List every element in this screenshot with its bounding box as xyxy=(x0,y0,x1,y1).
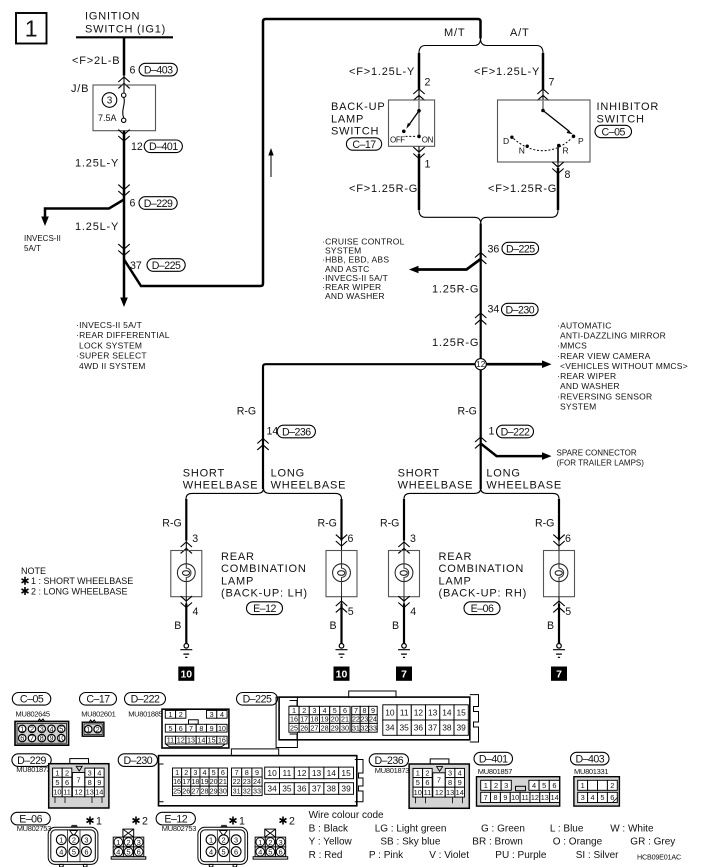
svg-text:MU802645: MU802645 xyxy=(16,710,50,719)
svg-text:<F>1.25L-Y: <F>1.25L-Y xyxy=(474,66,540,78)
svg-text:12: 12 xyxy=(414,707,424,717)
svg-text:11: 11 xyxy=(424,788,432,797)
ground lamp 2 xyxy=(336,644,348,658)
svg-text:3: 3 xyxy=(210,710,214,719)
svg-text:6: 6 xyxy=(565,533,571,545)
connector E-12 short wheelbase xyxy=(220,825,227,827)
svg-text:5: 5 xyxy=(268,848,272,857)
svg-text:(BACK-UP: LH): (BACK-UP: LH) xyxy=(221,588,308,600)
svg-text:4: 4 xyxy=(410,606,416,618)
connector D-236 label xyxy=(369,754,408,767)
svg-text:2 : LONG WHEELBASE: 2 : LONG WHEELBASE xyxy=(31,586,128,596)
svg-text:8: 8 xyxy=(565,169,571,181)
connector E-06 short wheelbase xyxy=(71,825,78,827)
junction block J/B xyxy=(93,85,156,131)
svg-text:28: 28 xyxy=(321,723,329,732)
svg-text:INHIBITOR: INHIBITOR xyxy=(597,101,660,113)
svg-text:<F>1.25R-G: <F>1.25R-G xyxy=(349,183,418,195)
branch arrow to cruise control list xyxy=(417,259,481,270)
svg-text:R-G: R-G xyxy=(237,406,256,418)
svg-text:2: 2 xyxy=(179,710,183,719)
svg-text:C–17: C–17 xyxy=(352,139,376,151)
svg-text:MU802753: MU802753 xyxy=(17,824,51,833)
svg-text:17: 17 xyxy=(300,715,308,724)
svg-text:3: 3 xyxy=(193,768,197,777)
svg-text:3: 3 xyxy=(504,781,508,790)
svg-text:2: 2 xyxy=(222,835,226,844)
svg-text:27: 27 xyxy=(191,786,199,795)
lamp 1 lower wire B to ground xyxy=(181,596,192,607)
branch wire to INVECS-II 5A/T with arrow xyxy=(45,200,124,219)
connector D-230 label xyxy=(118,754,157,767)
svg-text:14: 14 xyxy=(551,793,559,802)
brace split right pair xyxy=(404,488,559,499)
svg-text:14: 14 xyxy=(267,426,279,438)
svg-text:REAR: REAR xyxy=(439,551,473,563)
svg-text:4: 4 xyxy=(193,606,199,618)
svg-text:·REAR VIEW CAMERA: ·REAR VIEW CAMERA xyxy=(557,351,651,361)
svg-text:8: 8 xyxy=(245,768,249,777)
svg-text:19: 19 xyxy=(201,777,209,786)
svg-text:26: 26 xyxy=(300,723,308,732)
svg-text:39: 39 xyxy=(341,784,351,794)
svg-text:·SUPER SELECT: ·SUPER SELECT xyxy=(76,351,147,361)
M/T branch wire 1.25L-Y xyxy=(418,53,421,90)
svg-text:1.25R-G: 1.25R-G xyxy=(432,337,479,349)
connector E-06 long wheelbase xyxy=(123,829,134,837)
svg-text:25: 25 xyxy=(173,786,181,795)
svg-text:3: 3 xyxy=(88,768,92,777)
svg-text:29: 29 xyxy=(331,723,339,732)
svg-text:28: 28 xyxy=(201,786,209,795)
svg-text:5: 5 xyxy=(565,606,571,618)
svg-text:D–222: D–222 xyxy=(501,426,530,438)
svg-text:6: 6 xyxy=(130,65,136,77)
svg-text:D–401: D–401 xyxy=(149,141,178,153)
svg-text:12: 12 xyxy=(131,141,143,153)
svg-text:1: 1 xyxy=(258,838,262,847)
svg-text:J/B: J/B xyxy=(71,83,89,95)
svg-text:R : Red: R : Red xyxy=(309,850,343,861)
svg-text:C–17: C–17 xyxy=(86,694,110,706)
connector E-12 label xyxy=(156,812,195,825)
svg-text:6: 6 xyxy=(84,847,88,856)
rear combination lamp 4 wire R-G xyxy=(558,499,560,541)
svg-text:35: 35 xyxy=(282,784,292,794)
svg-text:24: 24 xyxy=(369,715,377,724)
svg-text:·REAR WIPER: ·REAR WIPER xyxy=(557,371,616,381)
ground ref box 10 xyxy=(178,667,194,681)
svg-text:20: 20 xyxy=(210,777,218,786)
main stem wire xyxy=(480,224,482,359)
svg-text:1: 1 xyxy=(20,724,24,733)
svg-text:6: 6 xyxy=(130,198,136,210)
svg-text:3: 3 xyxy=(581,793,585,802)
svg-text:<F>1.25L-Y: <F>1.25L-Y xyxy=(349,66,415,78)
svg-text:1 : SHORT WHEELBASE: 1 : SHORT WHEELBASE xyxy=(31,576,133,586)
connector D-230 shell xyxy=(231,749,278,756)
svg-text:10: 10 xyxy=(53,788,61,797)
svg-text:3: 3 xyxy=(448,769,452,778)
svg-text:36: 36 xyxy=(297,784,307,794)
svg-text:1.25L-Y: 1.25L-Y xyxy=(75,158,119,170)
svg-text:COMBINATION: COMBINATION xyxy=(221,563,307,575)
wire ignition to J/B, 2L-B xyxy=(123,37,126,75)
svg-text:R-G: R-G xyxy=(318,518,337,530)
svg-text:1: 1 xyxy=(96,816,102,828)
note marker *2 (E-06) xyxy=(133,817,140,825)
svg-text:5: 5 xyxy=(542,781,546,790)
wire below inhibitor pin 8 xyxy=(557,162,559,168)
svg-text:1: 1 xyxy=(168,710,172,719)
svg-text:MU801873: MU801873 xyxy=(16,765,50,774)
svg-text:D: D xyxy=(503,136,509,146)
svg-text:37: 37 xyxy=(312,784,322,794)
svg-text:SI : Silver: SI : Silver xyxy=(576,850,619,861)
svg-text:AND WASHER: AND WASHER xyxy=(325,291,385,301)
svg-text:21: 21 xyxy=(219,777,227,786)
svg-text:MU801885: MU801885 xyxy=(128,710,162,719)
svg-text:G : Green: G : Green xyxy=(481,823,525,834)
svg-text:LAMP: LAMP xyxy=(221,575,254,587)
svg-text:10: 10 xyxy=(511,793,519,802)
svg-text:L : Blue: L : Blue xyxy=(550,823,584,834)
svg-text:5: 5 xyxy=(126,848,130,857)
svg-text:14: 14 xyxy=(197,736,205,745)
svg-text:20: 20 xyxy=(331,715,339,724)
svg-text:2: 2 xyxy=(610,781,614,790)
svg-text:23: 23 xyxy=(243,777,251,786)
svg-text:·INVECS-II 5A/T: ·INVECS-II 5A/T xyxy=(76,320,142,330)
svg-text:4: 4 xyxy=(590,793,594,802)
svg-text:BR : Brown: BR : Brown xyxy=(472,837,523,848)
svg-text:12: 12 xyxy=(531,793,539,802)
svg-text:32: 32 xyxy=(243,786,251,795)
svg-text:W : White: W : White xyxy=(610,823,654,834)
svg-text:D–403: D–403 xyxy=(144,64,173,76)
svg-text:5: 5 xyxy=(59,724,63,733)
svg-text:A/T: A/T xyxy=(510,27,530,39)
lamp 4 lower wire B to ground xyxy=(553,601,564,612)
svg-text:1: 1 xyxy=(55,768,59,777)
svg-text:3: 3 xyxy=(40,724,44,733)
svg-text:4: 4 xyxy=(203,768,207,777)
rear combination lamp 2 wire R-G xyxy=(340,499,342,541)
connector D-225 shell xyxy=(276,697,297,747)
svg-text:B : Black: B : Black xyxy=(309,823,349,834)
svg-text:E–12: E–12 xyxy=(253,603,276,615)
lamp 1 bulb box xyxy=(171,551,202,597)
svg-text:LONG: LONG xyxy=(486,468,520,480)
svg-text:WHEELBASE: WHEELBASE xyxy=(398,479,474,491)
svg-text:WHEELBASE: WHEELBASE xyxy=(271,479,347,491)
svg-text:7: 7 xyxy=(401,669,407,681)
note marker *2 (E-12) xyxy=(280,817,287,825)
svg-text:12: 12 xyxy=(476,360,486,369)
connector D-222 shell xyxy=(162,709,229,748)
svg-text:3: 3 xyxy=(234,835,238,844)
svg-text:2: 2 xyxy=(30,724,34,733)
svg-text:SHORT: SHORT xyxy=(398,468,440,480)
svg-text:MU802753: MU802753 xyxy=(162,824,196,833)
svg-text:18: 18 xyxy=(191,777,199,786)
svg-text:3: 3 xyxy=(192,533,198,545)
direction arrow (up) xyxy=(270,153,272,177)
svg-text:9: 9 xyxy=(255,768,259,777)
svg-text:15: 15 xyxy=(208,736,216,745)
svg-text:1: 1 xyxy=(25,16,38,42)
svg-text:14: 14 xyxy=(456,788,464,797)
svg-text:SWITCH: SWITCH xyxy=(597,113,645,125)
svg-text:27: 27 xyxy=(310,723,318,732)
connector D-222 label xyxy=(125,693,166,706)
svg-text:LAMP: LAMP xyxy=(439,575,472,587)
svg-text:16: 16 xyxy=(218,736,226,745)
svg-text:MU801873: MU801873 xyxy=(375,766,409,775)
svg-text:D–230: D–230 xyxy=(123,755,152,767)
svg-text:N: N xyxy=(519,146,525,156)
A/T branch wire 1.25L-Y xyxy=(542,53,545,90)
svg-text:7: 7 xyxy=(76,775,80,784)
svg-text:5: 5 xyxy=(55,778,59,787)
svg-text:1: 1 xyxy=(209,835,213,844)
svg-text:ON: ON xyxy=(422,135,434,144)
svg-text:P: P xyxy=(578,136,584,146)
connector D-403 shell xyxy=(574,777,620,806)
svg-text:E–06: E–06 xyxy=(471,603,494,615)
svg-text:SWITCH (IG1): SWITCH (IG1) xyxy=(85,24,166,36)
connector D-236 shell xyxy=(430,759,449,764)
svg-text:LG : Light green: LG : Light green xyxy=(375,823,447,834)
lamp 2 bulb box xyxy=(326,551,357,597)
connector C-05 label xyxy=(12,693,51,706)
svg-text:6: 6 xyxy=(278,848,282,857)
svg-text:R-G: R-G xyxy=(535,518,554,530)
svg-text:38: 38 xyxy=(442,723,452,733)
rear combination lamp 3 wire R-G xyxy=(403,499,405,541)
connector D-229 shell xyxy=(70,759,89,764)
svg-text:16: 16 xyxy=(173,777,181,786)
svg-text:18: 18 xyxy=(310,715,318,724)
svg-text:·MMCS: ·MMCS xyxy=(557,341,587,351)
svg-text:13: 13 xyxy=(541,793,549,802)
svg-text:23: 23 xyxy=(360,715,368,724)
svg-text:2: 2 xyxy=(289,816,295,828)
wire below back-up switch pin 1 xyxy=(418,146,420,154)
svg-text:1: 1 xyxy=(484,781,488,790)
svg-text:1: 1 xyxy=(175,768,179,777)
svg-text:B: B xyxy=(547,620,554,632)
ground lamp 3 xyxy=(398,644,410,658)
svg-text:6: 6 xyxy=(137,848,141,857)
svg-text:13: 13 xyxy=(187,736,195,745)
svg-text:SPARE CONNECTOR: SPARE CONNECTOR xyxy=(557,449,637,458)
brace split M/T / A/T xyxy=(419,39,543,54)
connector D-225 label xyxy=(237,693,278,706)
svg-text:4WD II SYSTEM: 4WD II SYSTEM xyxy=(79,361,146,371)
svg-text:36: 36 xyxy=(414,723,424,733)
svg-text:15: 15 xyxy=(341,768,351,778)
inhibitor contacts D N R P xyxy=(541,109,545,113)
svg-text:14: 14 xyxy=(327,768,337,778)
svg-text:2: 2 xyxy=(184,768,188,777)
connector chevron D-403 xyxy=(118,77,129,88)
ground lamp 4 xyxy=(553,644,565,658)
svg-text:6: 6 xyxy=(425,778,429,787)
svg-text:2: 2 xyxy=(72,835,76,844)
svg-text:33: 33 xyxy=(253,786,261,795)
svg-text:1: 1 xyxy=(489,426,495,438)
svg-text:22: 22 xyxy=(352,715,360,724)
svg-text:11: 11 xyxy=(283,768,292,778)
connector C-17 label xyxy=(80,693,117,706)
switch contacts OFF/ON xyxy=(417,109,421,113)
svg-text:19: 19 xyxy=(321,715,329,724)
svg-text:D–236: D–236 xyxy=(282,426,311,438)
svg-text:MU801331: MU801331 xyxy=(574,767,608,776)
svg-text:7: 7 xyxy=(484,793,488,802)
svg-text:4: 4 xyxy=(532,781,536,790)
svg-text:LOCK SYSTEM: LOCK SYSTEM xyxy=(79,340,142,350)
svg-text:9: 9 xyxy=(458,778,462,787)
svg-text:D–230: D–230 xyxy=(505,304,534,316)
connector C-05 shell xyxy=(38,719,45,721)
svg-text:2: 2 xyxy=(494,781,498,790)
svg-text:SYSTEM: SYSTEM xyxy=(560,401,596,411)
svg-text:12: 12 xyxy=(177,736,185,745)
svg-text:7: 7 xyxy=(549,77,555,89)
ground lamp 1 xyxy=(180,644,192,658)
junction node 12 xyxy=(486,363,543,366)
svg-text:OFF: OFF xyxy=(390,135,405,144)
wire down to systems arrow xyxy=(123,258,126,298)
svg-text:12: 12 xyxy=(435,788,443,797)
svg-text:15: 15 xyxy=(457,707,467,717)
svg-text:D–403: D–403 xyxy=(575,753,604,765)
svg-text:Wire colour code: Wire colour code xyxy=(309,810,384,821)
connector E-12 long wheelbase xyxy=(265,829,276,837)
svg-text:GR : Grey: GR : Grey xyxy=(630,837,675,848)
svg-text:30: 30 xyxy=(219,786,227,795)
svg-text:IGNITION: IGNITION xyxy=(85,11,140,23)
svg-text:D–225: D–225 xyxy=(243,694,272,706)
ignition switch bus bar xyxy=(76,36,173,38)
note marker *1 (E-12) xyxy=(230,817,237,825)
lamp 3 lower wire B to ground xyxy=(398,596,409,607)
svg-text:2: 2 xyxy=(96,725,100,734)
svg-text:24: 24 xyxy=(253,777,261,786)
svg-text:13: 13 xyxy=(312,768,322,778)
svg-text:(BACK-UP: RH): (BACK-UP: RH) xyxy=(439,588,528,600)
svg-text:O : Orange: O : Orange xyxy=(553,837,603,848)
svg-text:D–222: D–222 xyxy=(131,694,160,706)
svg-text:·REAR DIFFERENTIAL: ·REAR DIFFERENTIAL xyxy=(76,330,170,340)
svg-text:D–401: D–401 xyxy=(479,753,508,765)
svg-text:6: 6 xyxy=(65,778,69,787)
svg-text:5: 5 xyxy=(416,778,420,787)
ground ref box 7 xyxy=(396,667,412,681)
svg-text:34: 34 xyxy=(385,723,395,733)
svg-text:1: 1 xyxy=(425,159,431,171)
svg-text:4: 4 xyxy=(258,848,262,857)
connector C-17 shell xyxy=(89,720,96,722)
svg-text:7: 7 xyxy=(437,776,441,785)
svg-text:P : Pink: P : Pink xyxy=(369,850,404,861)
brace split left pair xyxy=(186,488,342,499)
svg-text:1.25L-Y: 1.25L-Y xyxy=(75,221,119,233)
svg-text:MU802601: MU802601 xyxy=(81,710,115,719)
svg-text:29: 29 xyxy=(210,786,218,795)
svg-text:1: 1 xyxy=(416,769,420,778)
svg-text:12: 12 xyxy=(74,788,82,797)
svg-text:<VEHICLES WITHOUT MMCS>: <VEHICLES WITHOUT MMCS> xyxy=(560,361,688,371)
svg-text:NOTE: NOTE xyxy=(21,566,46,576)
svg-text:7: 7 xyxy=(235,768,239,777)
svg-text:14: 14 xyxy=(442,707,452,717)
svg-text:2: 2 xyxy=(425,769,429,778)
svg-text:1: 1 xyxy=(116,838,120,847)
svg-text:1: 1 xyxy=(59,835,63,844)
svg-text:8: 8 xyxy=(493,793,497,802)
svg-text:10: 10 xyxy=(385,707,395,717)
svg-text:37: 37 xyxy=(428,723,438,733)
svg-text:33: 33 xyxy=(369,723,377,732)
svg-text:9: 9 xyxy=(97,778,101,787)
svg-text:C–05: C–05 xyxy=(602,126,626,138)
svg-text:5A/T: 5A/T xyxy=(24,244,41,253)
svg-text:31: 31 xyxy=(352,723,360,732)
svg-text:2: 2 xyxy=(65,768,69,777)
connector D-403 label xyxy=(571,752,610,765)
svg-text:10: 10 xyxy=(336,669,348,681)
connector D-401 label xyxy=(474,752,513,765)
svg-text:13: 13 xyxy=(446,788,454,797)
svg-text:4: 4 xyxy=(97,768,101,777)
svg-text:6: 6 xyxy=(179,724,183,733)
svg-text:D–225: D–225 xyxy=(506,243,535,255)
svg-text:1: 1 xyxy=(86,725,90,734)
svg-text:25: 25 xyxy=(290,723,298,732)
fuse 3 7.5A xyxy=(102,93,117,108)
svg-text:B: B xyxy=(392,620,399,632)
svg-text:4: 4 xyxy=(50,724,54,733)
svg-text:1: 1 xyxy=(581,781,585,790)
connector D-229 label xyxy=(12,754,51,767)
svg-text:R: R xyxy=(563,146,569,156)
svg-text:21: 21 xyxy=(341,715,349,724)
svg-text:3: 3 xyxy=(107,96,113,107)
svg-text:C–05: C–05 xyxy=(20,694,44,706)
svg-text:13: 13 xyxy=(428,707,438,717)
svg-text:7.5A: 7.5A xyxy=(98,113,117,123)
merge brace below switches xyxy=(419,210,558,224)
svg-text:5: 5 xyxy=(72,847,76,856)
note marker *1 (E-06) xyxy=(87,817,94,825)
svg-text:9: 9 xyxy=(210,724,214,733)
svg-text:3: 3 xyxy=(84,835,88,844)
rear combination lamp 1 wire R-G xyxy=(185,499,187,541)
svg-text:34: 34 xyxy=(267,784,277,794)
svg-text:WHEELBASE: WHEELBASE xyxy=(183,479,259,491)
sheet number box 1 xyxy=(16,13,47,44)
connector D-401 shell xyxy=(477,777,560,806)
svg-text:8: 8 xyxy=(199,724,203,733)
svg-text:11: 11 xyxy=(167,736,174,745)
svg-text:BACK-UP: BACK-UP xyxy=(331,101,386,113)
svg-text:5: 5 xyxy=(168,724,172,733)
connector chevron + pin 37 D-225 xyxy=(118,244,129,255)
svg-text:9: 9 xyxy=(503,793,507,802)
